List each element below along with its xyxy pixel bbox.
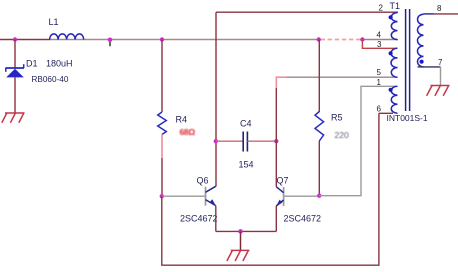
svg-text:Q6: Q6	[197, 176, 209, 186]
wire ground stem center	[240, 231, 242, 250]
wire R4 bottom highlighted	[161, 135, 163, 159]
node junction C4 left	[214, 139, 218, 143]
T1 winding W2 pins 3-5	[391, 48, 397, 77]
node junction Q7 base R5	[317, 194, 321, 198]
wire C4 right lead	[247, 140, 276, 142]
svg-text:4: 4	[377, 31, 382, 40]
svg-text:8: 8	[437, 4, 442, 13]
svg-text:Q7: Q7	[277, 176, 289, 186]
T1 W3 phase dot	[389, 88, 393, 92]
svg-text:68Ω: 68Ω	[180, 127, 196, 137]
svg-text:D1: D1	[26, 59, 38, 69]
svg-text:220: 220	[335, 130, 349, 140]
wire node B corner highlighted	[276, 77, 287, 88]
svg-text:1: 1	[377, 78, 382, 87]
svg-text:7: 7	[438, 58, 443, 67]
node junction Q6 base	[160, 194, 164, 198]
transformer T1	[377, 1, 444, 123]
ground earth below D1	[2, 113, 25, 123]
wire bottom rail pin6 to Q6 base node	[162, 113, 379, 265]
svg-text:2: 2	[379, 4, 384, 13]
wire Q6 base grey	[162, 195, 206, 197]
wire top box horizontal T1 pin2	[216, 11, 398, 13]
T1 secondary winding pins 8-7	[417, 14, 423, 67]
svg-text:2SC4672: 2SC4672	[180, 214, 218, 224]
ground earth center	[227, 250, 250, 261]
svg-text:INT001S-1: INT001S-1	[387, 113, 428, 123]
svg-text:5: 5	[377, 68, 382, 77]
node junction with stub at x110	[108, 38, 113, 47]
svg-text:R4: R4	[176, 115, 188, 125]
wire pin6 horizontal	[379, 112, 393, 114]
wire C4 left lead	[216, 140, 243, 142]
wire emitter rail	[216, 230, 276, 232]
wire Q7 emitter vertical	[275, 206, 277, 231]
T1 W2 phase dot	[389, 51, 393, 55]
T1 secondary phase dot	[420, 60, 424, 64]
wire highlighted dashed segment between R5 node and pin3 tee	[321, 39, 362, 41]
node junction at R4 top	[160, 37, 164, 41]
svg-text:RB060-40: RB060-40	[32, 75, 69, 84]
node junction pin3 tee	[360, 37, 364, 41]
wire node A vertical (pin2 to C4 left to Q6 collector)	[215, 12, 217, 186]
wire main input rail left segment	[0, 39, 50, 41]
node junction at D1 tap	[13, 37, 17, 41]
resistor R5 vertical top wire	[318, 40, 320, 113]
transistor Q7	[276, 187, 284, 207]
wire Q7 base grey	[284, 195, 320, 197]
resistor R4 vertical top wire	[161, 40, 163, 113]
capacitor C4	[243, 132, 247, 152]
wire pin7 ground drop grey	[440, 67, 442, 86]
svg-text:C4: C4	[240, 119, 252, 129]
svg-text:154: 154	[239, 160, 254, 170]
wire grey net to T1 pin1	[319, 86, 396, 195]
T1 winding W1 pins 2-4	[391, 13, 397, 40]
wire D1 anode to ground	[14, 77, 16, 113]
T1 winding W3 pins 1-6	[391, 86, 397, 113]
transistor Q6	[206, 186, 216, 206]
inductor L1	[50, 34, 84, 40]
resistor R4	[158, 112, 167, 135]
svg-text:R5: R5	[331, 113, 343, 123]
node junction C4 right	[274, 139, 278, 143]
wire main input rail mid segment	[50, 39, 319, 41]
svg-text:L1: L1	[49, 17, 59, 27]
wire Q6 emitter vertical	[215, 206, 217, 232]
diode D1 schottky	[6, 64, 25, 77]
svg-text:180uH: 180uH	[46, 59, 73, 69]
wire pin5 horizontal to transformer	[287, 76, 397, 78]
wire pin8 to edge	[424, 13, 458, 15]
node junction at R5 top	[317, 37, 321, 41]
wire R5 bottom	[318, 141, 320, 196]
wire pin4 segment to transformer	[362, 39, 398, 41]
resistor R5	[315, 112, 324, 142]
svg-text:3: 3	[377, 40, 382, 49]
node junction emitter rail	[238, 229, 243, 234]
svg-text:6: 6	[377, 105, 382, 114]
T1 core	[405, 9, 407, 111]
wire node B vertical (pin5 to C4 right to Q7 collector)	[275, 88, 277, 187]
wire pin7 short	[418, 66, 441, 68]
wire R4 to Q6 base node	[161, 158, 163, 196]
wire D1 cathode vertical	[14, 40, 16, 69]
T1 W1 phase dot	[389, 15, 393, 19]
wire pin3 link	[362, 40, 397, 49]
svg-text:2SC4672: 2SC4672	[284, 214, 322, 224]
svg-text:T1: T1	[390, 1, 401, 11]
ground earth at T1 pin7	[427, 86, 450, 96]
